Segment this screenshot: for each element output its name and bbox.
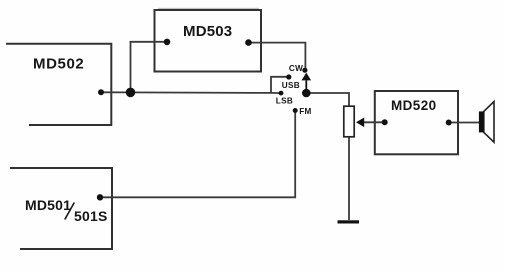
- wire: stub to LSB contact: [271, 92, 281, 94]
- node: FM switch contact: [293, 108, 298, 113]
- node: CW switch contact: [302, 68, 307, 73]
- node: LSB switch contact: [279, 91, 284, 96]
- speaker LS1 cone: [484, 102, 494, 143]
- node: MD501 output terminal: [97, 194, 103, 200]
- block MD502: [6, 44, 111, 125]
- block MD520: [375, 91, 458, 154]
- potentiometer (AF gain): [344, 106, 354, 137]
- wire: MD501 output to FM contact: [100, 111, 295, 198]
- wire: MD503 output down to CW contact: [249, 43, 306, 71]
- svg-text:MD501: MD501: [25, 197, 71, 213]
- svg-text:CW: CW: [289, 64, 303, 73]
- block MD503: [155, 8, 262, 71]
- node: MD503 input terminal: [164, 39, 171, 46]
- wire: branch up to USB contact: [271, 77, 289, 93]
- wire: switch common to potentiometer top: [306, 93, 349, 106]
- node: MD503 output terminal: [245, 39, 252, 46]
- node: wiper wire junction: [382, 119, 388, 125]
- wire: potentiometer bottom to ground: [348, 137, 350, 220]
- node: MD520 output terminal: [446, 120, 452, 126]
- block MD501/501S: [10, 168, 112, 249]
- node: switch common: [302, 89, 311, 98]
- ground: [338, 220, 360, 223]
- node: junction of MD502 rail and MD503 branch: [126, 88, 136, 98]
- svg-text:MD520: MD520: [391, 98, 437, 113]
- potentiometer wiper arrow: [356, 118, 364, 128]
- node: USB switch contact: [286, 74, 291, 79]
- wire: wiper to MD520 input: [364, 121, 385, 123]
- wire: MD520 output to speaker: [449, 122, 479, 124]
- svg-text:LSB: LSB: [276, 96, 293, 105]
- svg-text:501S: 501S: [74, 208, 108, 224]
- mode switch S1 wiper (points at CW): [302, 73, 312, 93]
- svg-text:MD503: MD503: [183, 23, 232, 40]
- svg-text:USB: USB: [282, 81, 300, 90]
- svg-text:MD502: MD502: [33, 55, 84, 72]
- wire: junction riser to MD503 input: [131, 42, 168, 93]
- node: MD502 output terminal: [98, 89, 104, 95]
- speaker LS1 driver: [479, 111, 484, 132]
- svg-text:FM: FM: [299, 107, 311, 116]
- wire: MD502 output rail to switch: [101, 91, 271, 94]
